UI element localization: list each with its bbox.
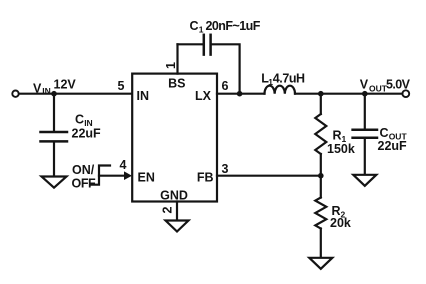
wire VIN to IN pin [19,93,132,95]
wire GND pin stub [176,202,178,221]
svg-text:4.7uH: 4.7uH [273,72,305,86]
wire EN arrow [99,175,125,177]
svg-text:C: C [190,19,199,33]
svg-text:IN: IN [42,86,51,96]
svg-text:IN: IN [137,89,150,103]
svg-text:OUT: OUT [369,83,388,93]
EN arrowhead [124,171,132,180]
wire inductor to VOUT [295,93,402,95]
wire R1 to FB node [320,154,322,176]
svg-text:22uF: 22uF [378,139,408,153]
resistor R1 [315,114,326,154]
ground (CIN) [42,177,67,188]
wire BS pin stub [176,44,178,73]
svg-text:4: 4 [120,158,127,172]
junction node at FB/R1/R2 [318,173,324,179]
svg-text:3: 3 [222,162,229,176]
capacitor CIN [41,131,68,134]
wire BS to C1 [178,43,203,45]
resistor R2 [315,198,326,229]
svg-text:5.0V: 5.0V [386,78,411,92]
svg-text:6: 6 [222,79,229,93]
svg-text:C: C [380,126,389,140]
svg-text:R: R [333,128,342,142]
wire FB pin [217,175,321,177]
svg-text:EN: EN [138,170,155,184]
junction node at CIN [51,91,57,97]
svg-text:LX: LX [195,89,212,103]
output terminal VOUT [402,90,409,97]
svg-text:V: V [360,78,369,92]
junction node at R1 top [318,91,324,97]
svg-text:GND: GND [160,189,188,203]
svg-text:V: V [33,81,42,95]
ground (IC GND pin) [166,221,189,232]
junction node at COUT [362,91,368,97]
capacitor CIN lead wire [53,94,55,132]
svg-text:BS: BS [168,77,185,91]
capacitor COUT [353,129,377,132]
resistor R1 lead wire [320,94,322,114]
svg-text:5: 5 [118,79,125,93]
svg-text:1: 1 [164,62,178,69]
wire LX pin to inductor [217,93,265,95]
svg-text:C: C [75,112,84,126]
svg-text:2: 2 [160,206,174,213]
capacitor COUT lead wire [364,94,366,130]
ground (R2) [309,258,332,269]
svg-text:FB: FB [197,170,214,184]
ON/OFF step waveform symbol [92,166,111,185]
junction node at LX/C1 [237,91,243,97]
op-amp U1 (regulator IC body) [132,74,217,202]
wire C1 to LX node [212,44,240,92]
svg-text:OFF: OFF [72,176,97,190]
wire CIN to ground [53,142,55,177]
ground (COUT) [353,175,376,186]
wire COUT to ground [364,138,366,174]
resistor R2 lead wire [320,176,322,198]
capacitor C1 [203,35,206,55]
svg-text:22uF: 22uF [72,127,102,141]
svg-text:150k: 150k [327,142,355,156]
input terminal VIN [12,91,18,97]
svg-text:1: 1 [199,25,204,35]
svg-text:20k: 20k [330,216,351,230]
svg-text:12V: 12V [54,77,77,91]
svg-text:ON/: ON/ [72,163,95,177]
svg-text:20nF~1uF: 20nF~1uF [206,19,261,33]
inductor L1 [265,86,296,94]
wire R2 to ground [320,229,322,258]
